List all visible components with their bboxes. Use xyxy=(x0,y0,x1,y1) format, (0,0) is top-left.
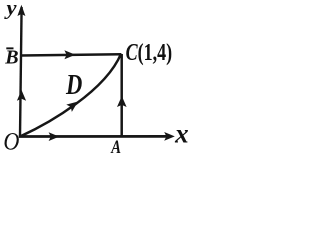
y-axis arrowhead top xyxy=(17,5,25,16)
line BC xyxy=(21,54,121,55)
svg-text:y: y xyxy=(3,0,17,19)
line AC xyxy=(120,54,123,136)
x-axis arrowhead right xyxy=(164,132,175,141)
svg-text:x: x xyxy=(174,118,189,148)
arrow right on segment OA xyxy=(49,132,60,141)
svg-text:O: O xyxy=(3,128,19,155)
overbar above B xyxy=(6,47,13,49)
arrow on curve D xyxy=(66,98,80,112)
x-axis xyxy=(19,135,167,138)
svg-text:B: B xyxy=(4,47,18,69)
y-axis xyxy=(20,7,22,137)
curve D from O to C xyxy=(21,54,122,137)
svg-text:D: D xyxy=(65,70,82,101)
arrow up on segment AC xyxy=(117,96,127,107)
svg-text:C(1,4): C(1,4) xyxy=(126,40,173,66)
arrow up on segment OB xyxy=(17,90,26,101)
svg-text:A: A xyxy=(110,137,121,158)
arrow right on segment BC xyxy=(64,50,75,59)
